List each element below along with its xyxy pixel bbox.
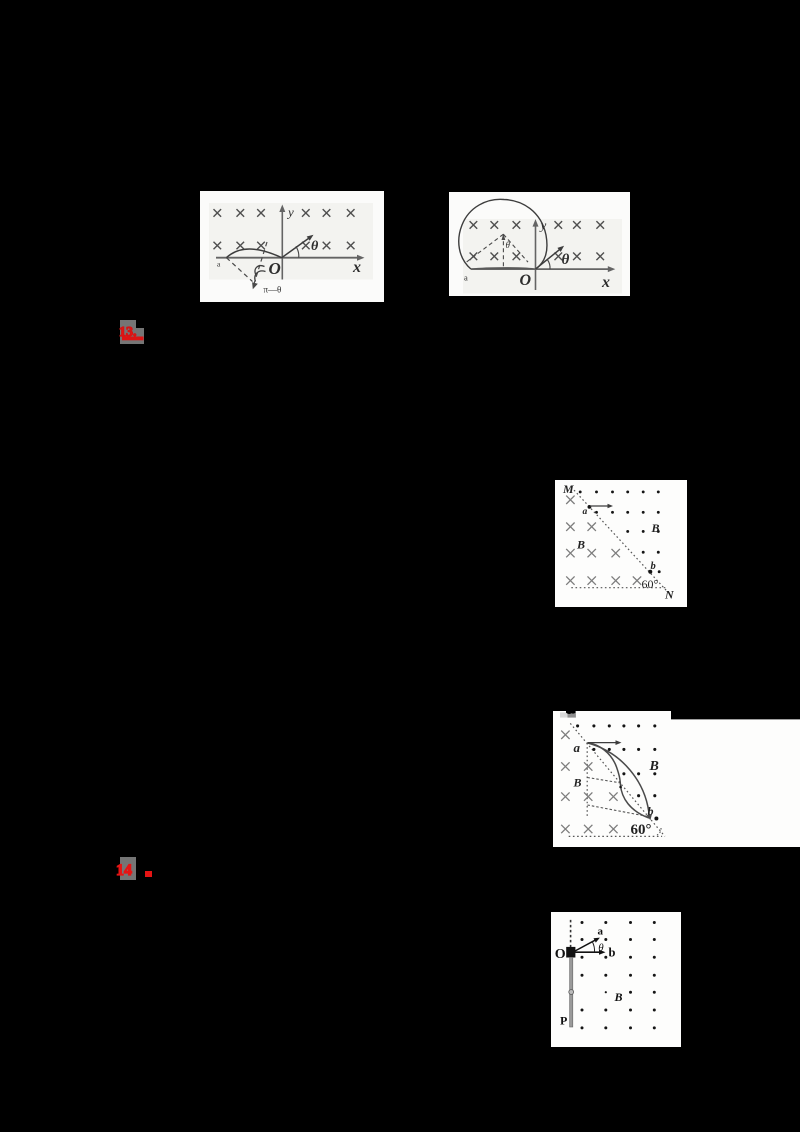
svg-text:y: y — [286, 205, 294, 220]
svg-text:60°: 60° — [631, 822, 652, 838]
svg-text:y: y — [539, 218, 547, 233]
svg-text:B: B — [573, 776, 582, 790]
svg-text:π—θ: π—θ — [264, 285, 282, 295]
svg-text:B: B — [614, 990, 623, 1004]
svg-text:O: O — [555, 947, 566, 962]
svg-text:a: a — [583, 507, 588, 517]
svg-text:a: a — [464, 273, 468, 283]
svg-text:B: B — [649, 759, 659, 774]
svg-text:a: a — [574, 740, 581, 755]
svg-text:θ: θ — [562, 252, 570, 268]
svg-text:θ: θ — [598, 942, 604, 954]
svg-text:P: P — [560, 1014, 567, 1028]
svg-text:θ: θ — [506, 240, 511, 250]
svg-text:B: B — [651, 521, 660, 535]
svg-text:O: O — [269, 259, 281, 278]
svg-text:b: b — [651, 561, 656, 572]
svg-text:θ: θ — [311, 239, 319, 254]
svg-text:b: b — [609, 946, 616, 960]
svg-text:x: x — [352, 259, 361, 276]
svg-text:14: 14 — [116, 862, 132, 879]
svg-text:x: x — [601, 274, 610, 291]
svg-text:a: a — [598, 926, 604, 938]
svg-text:M: M — [562, 482, 574, 496]
svg-text:N: N — [664, 588, 675, 602]
svg-text:b: b — [648, 804, 654, 818]
svg-text:60°: 60° — [642, 577, 659, 591]
svg-text:O: O — [520, 272, 532, 289]
svg-text:B: B — [576, 538, 585, 552]
